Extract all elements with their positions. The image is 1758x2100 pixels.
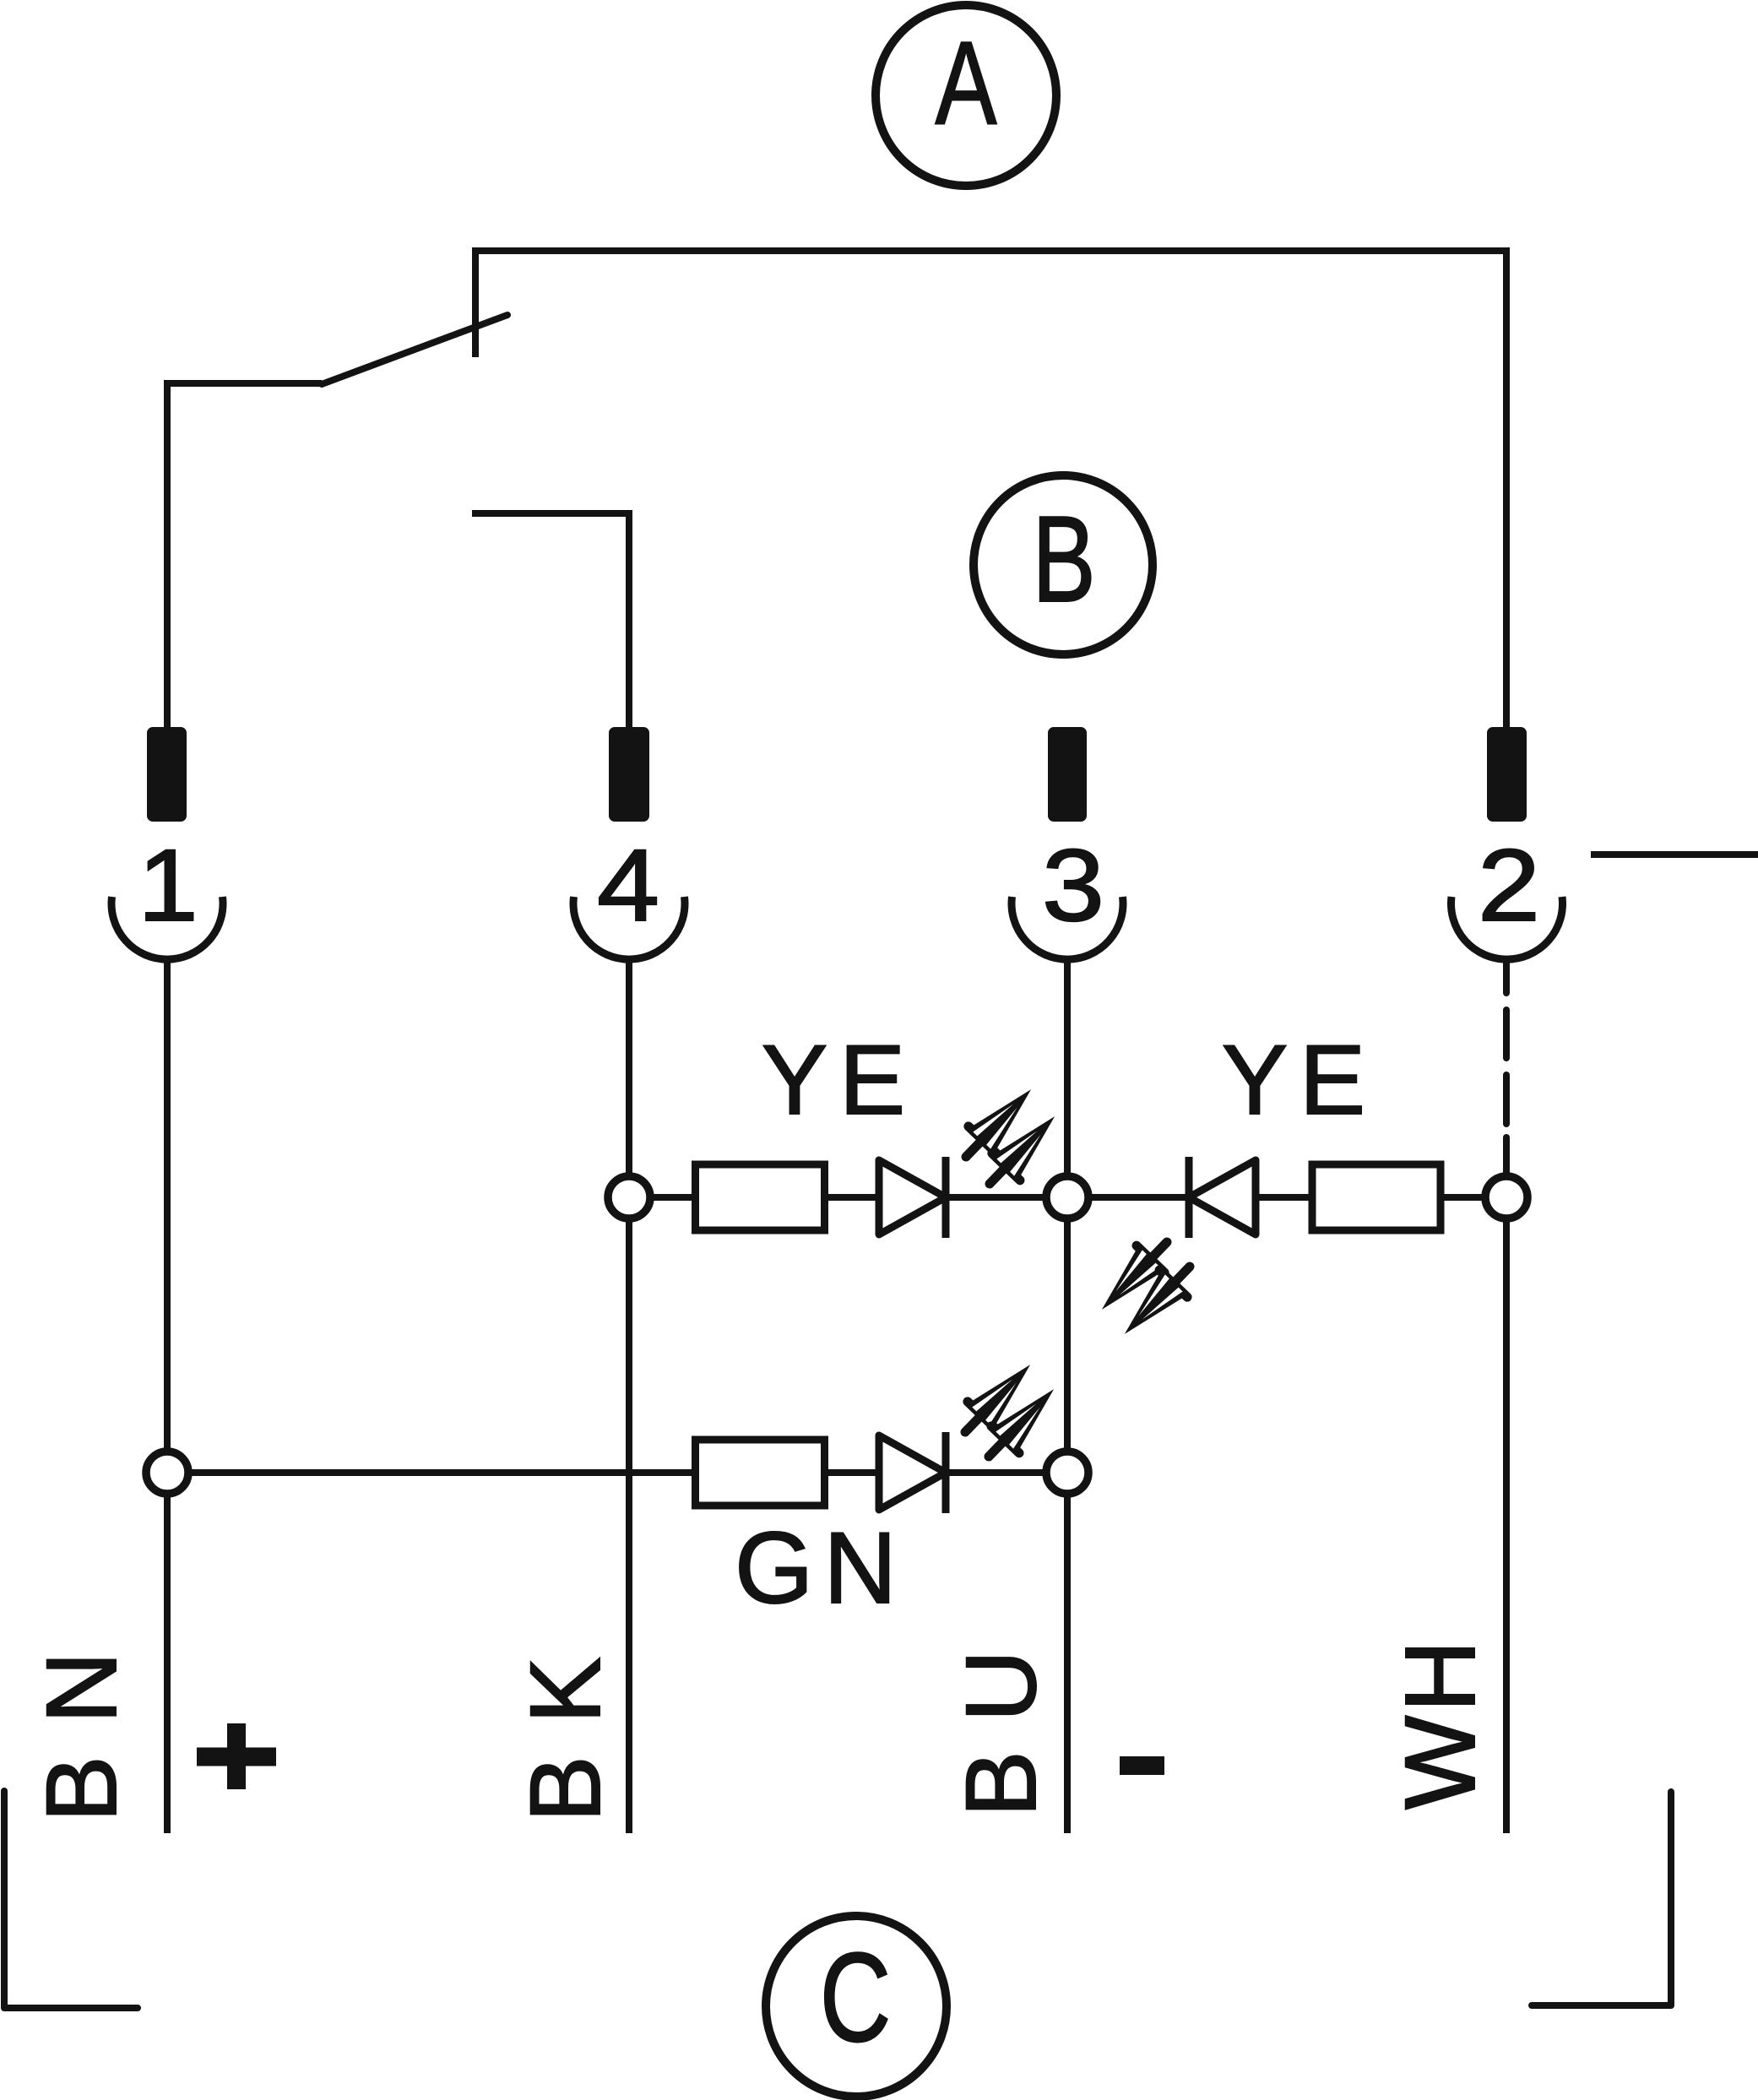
pin 3 terminal bar (1048, 727, 1087, 822)
pin 4 number label (597, 828, 659, 942)
node on wire 3 at GN row (1046, 1452, 1088, 1494)
wire: switch lower contact to pin 4 (472, 513, 629, 727)
svg-text:4: 4 (597, 828, 659, 942)
svg-text:BN: BN (26, 1620, 138, 1822)
svg-text:YE: YE (762, 1024, 917, 1135)
LED D2 triangle (1189, 1160, 1256, 1234)
resistor R1 (YE left) (696, 1164, 825, 1230)
LED D3 emission arrows (951, 1351, 1044, 1446)
wire 1 (BN) (164, 963, 171, 1833)
switch blade (322, 315, 507, 384)
wire 2 (WH) lower solid segment (1503, 1197, 1510, 1833)
corner bracket bottom right (1532, 1792, 1671, 2005)
svg-text:BU: BU (946, 1621, 1057, 1817)
pin 3 number label (1042, 828, 1104, 942)
wire 4 (BK) (626, 963, 632, 1833)
pin 1 socket arc (111, 897, 223, 959)
circle label A (876, 5, 1056, 186)
minus sign (1120, 1756, 1164, 1775)
svg-text:GN: GN (735, 1511, 907, 1625)
svg-text:3: 3 (1042, 828, 1104, 942)
node on wire 3 at YE row (1046, 1176, 1088, 1218)
wire: YE LED row (629, 1194, 1506, 1201)
svg-text:2: 2 (1478, 828, 1540, 942)
LED D1 cathode bar (942, 1157, 950, 1238)
wire: top bus from switch to pin 2 (475, 251, 1506, 727)
svg-text:WH: WH (1385, 1636, 1496, 1810)
resistor R2 (YE right) (1312, 1164, 1441, 1230)
plus sign (197, 1723, 276, 1789)
LED D1 triangle (879, 1160, 946, 1234)
LED D2 emission arrows (1088, 1229, 1180, 1323)
svg-text:1: 1 (138, 828, 198, 942)
pin 4 terminal bar (609, 727, 649, 822)
node on wire 4 at YE row (608, 1176, 650, 1218)
pin 2 number label (1478, 828, 1540, 942)
svg-text:BK: BK (510, 1625, 621, 1822)
pin 1 number label (138, 828, 198, 942)
circle label C (766, 1916, 947, 2097)
node on wire 1 at GN row (146, 1452, 188, 1494)
wire 3 (BU) (1064, 963, 1071, 1833)
wire: GN LED row (167, 1469, 1067, 1476)
resistor R3 (GN) (696, 1440, 825, 1506)
tick mark right of pin 2 (1591, 851, 1758, 858)
LED D1 emission arrows (952, 1076, 1044, 1170)
wire: switch left lead to pin 1 (167, 383, 322, 727)
svg-text:C: C (820, 1926, 891, 2068)
pin 3 socket arc (1012, 897, 1123, 959)
svg-text:A: A (936, 16, 997, 149)
svg-text:YE: YE (1222, 1024, 1377, 1135)
pin 2 terminal bar (1487, 727, 1527, 822)
pin 1 terminal bar (147, 727, 187, 822)
LED D2 cathode bar (1186, 1157, 1193, 1238)
LED D3 triangle (879, 1435, 946, 1510)
pin 4 socket arc (573, 897, 685, 959)
circle label B (974, 475, 1153, 654)
corner bracket bottom left (4, 1791, 138, 2008)
wire 2 dashed segment below socket (1503, 961, 1510, 1197)
pin 2 socket arc (1451, 897, 1562, 959)
svg-text:B: B (1032, 490, 1095, 627)
LED D3 cathode bar (942, 1432, 950, 1513)
node on wire 2 at YE row (1485, 1176, 1527, 1218)
